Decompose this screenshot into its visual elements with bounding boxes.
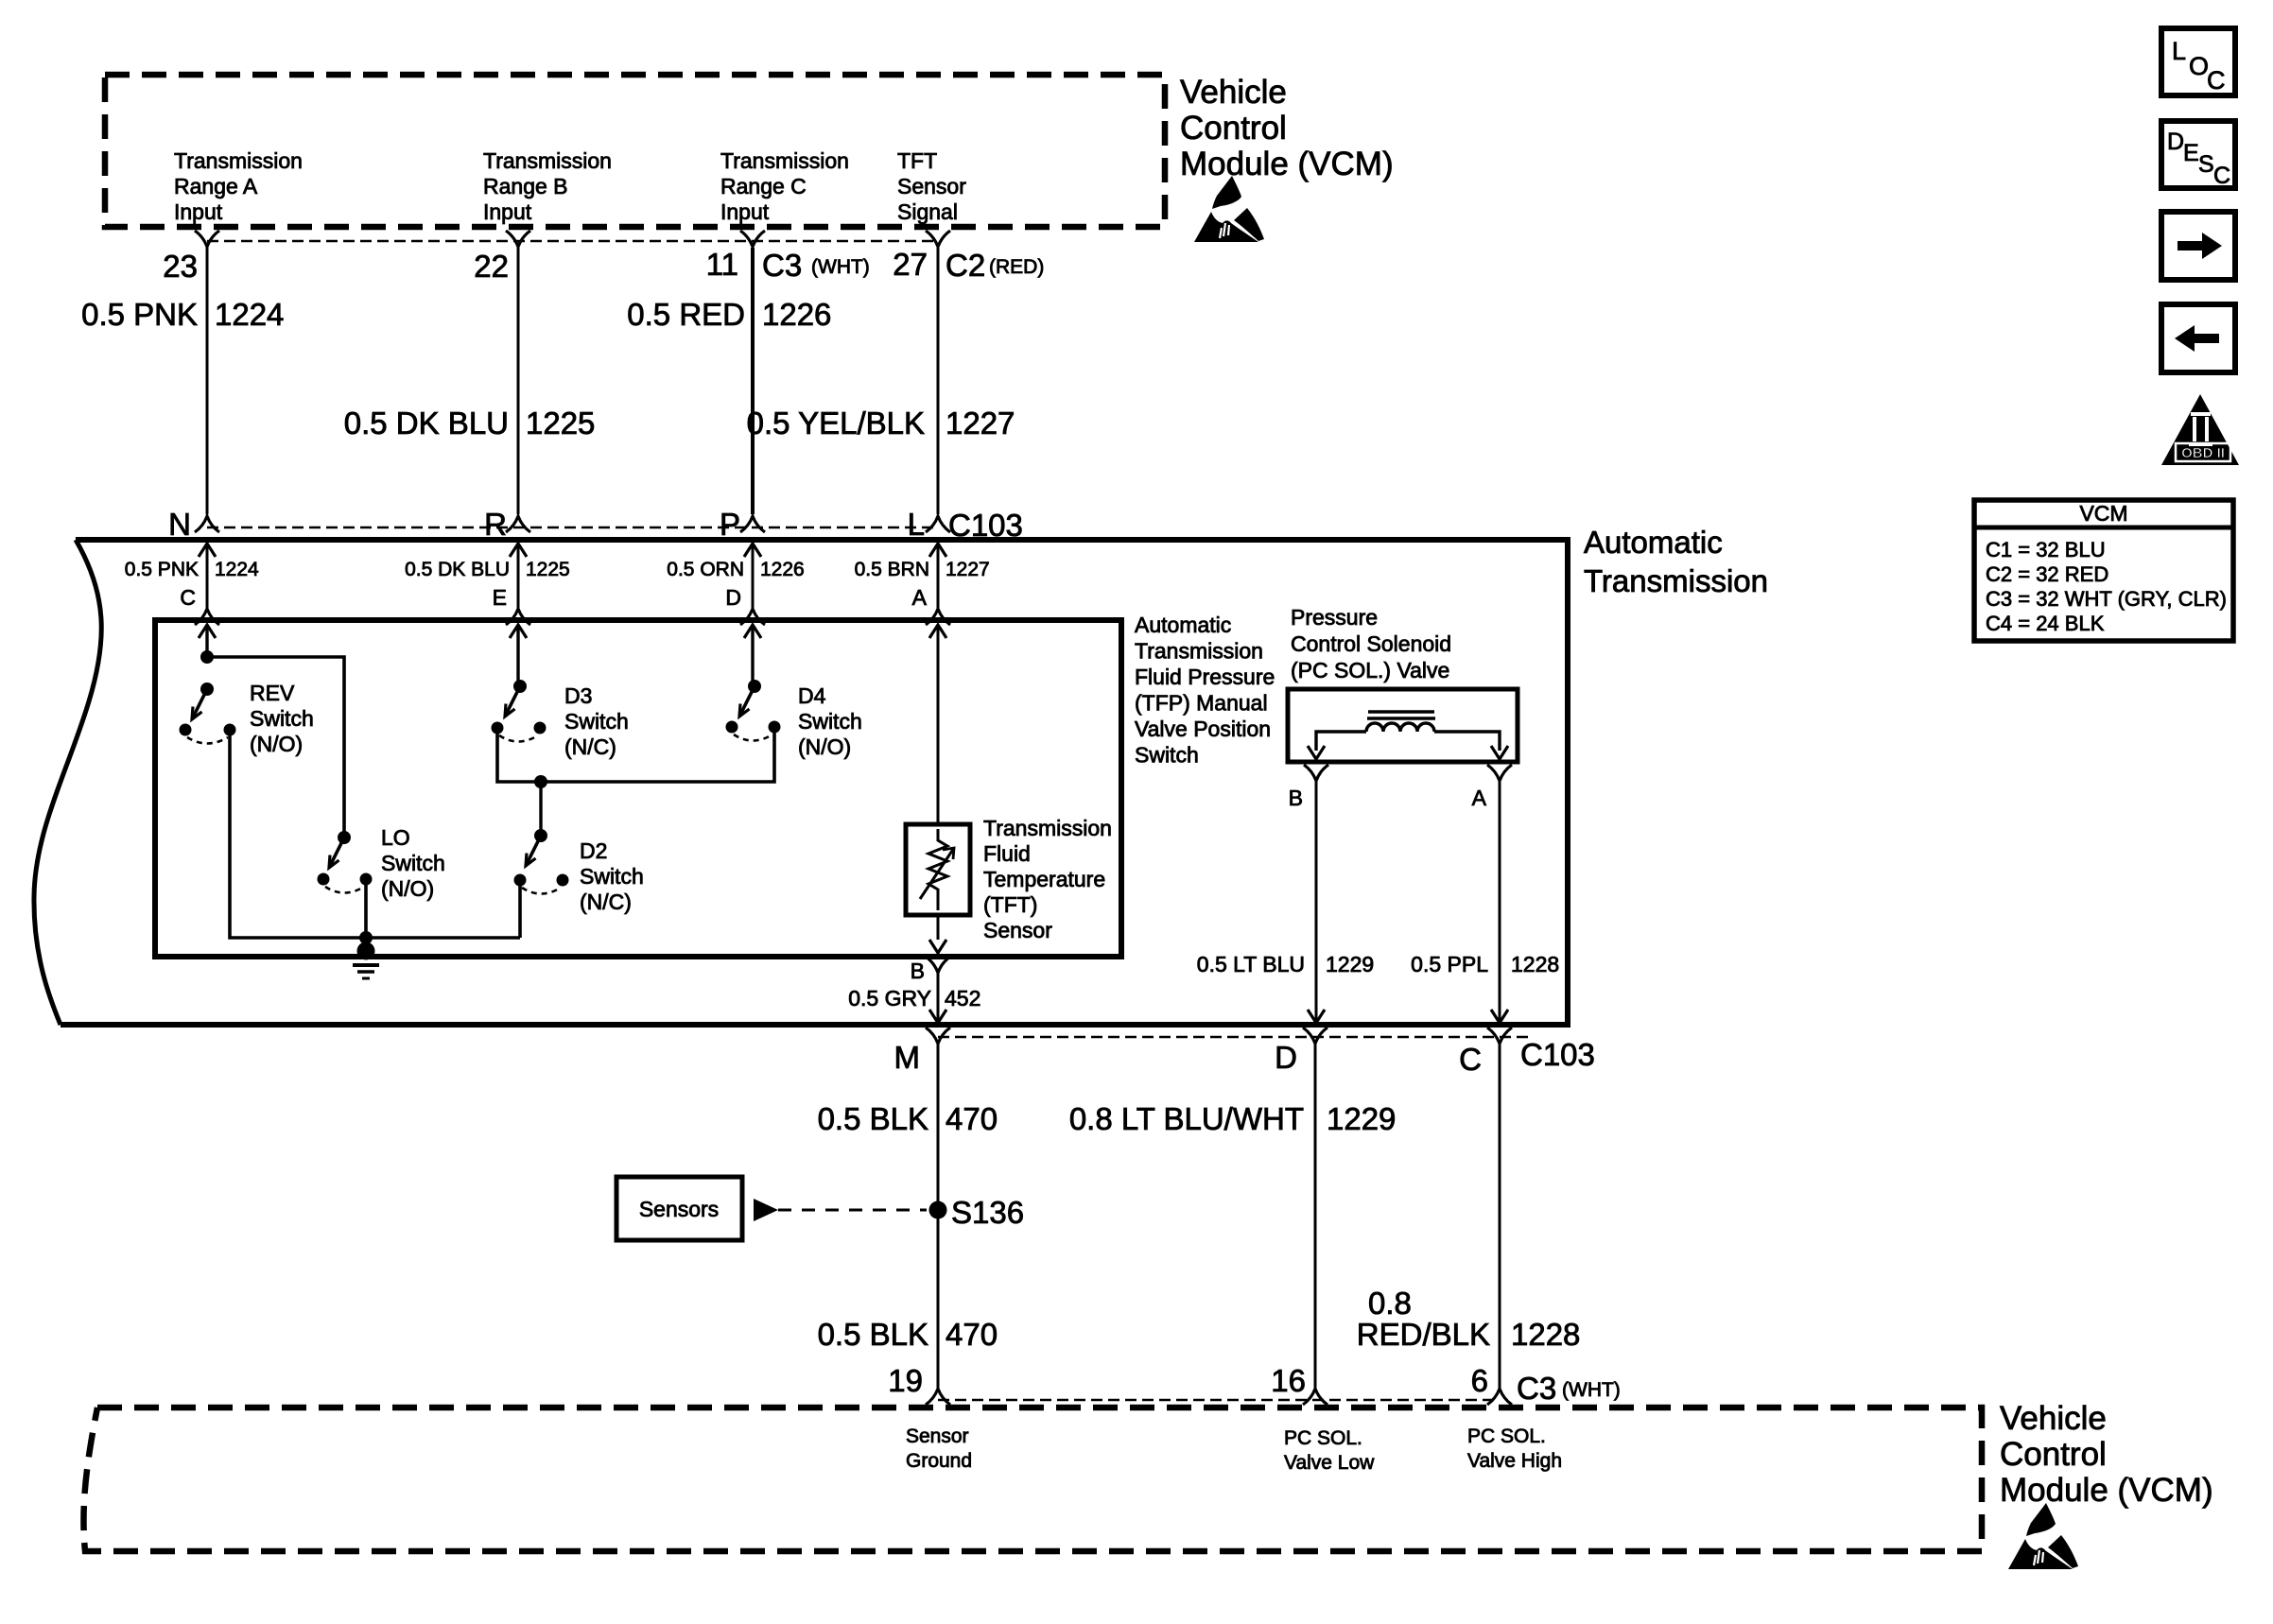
svg-text:0.5 BRN: 0.5 BRN [855,559,929,580]
D4 switch fixed contact [769,721,781,734]
svg-text:0.5 RED: 0.5 RED [627,297,745,332]
fork VCM pin 6 [1487,1389,1512,1405]
arrow terminal D inside box [744,625,761,638]
D4 switch pivot node [748,680,761,693]
icon arrow left [2161,304,2235,372]
svg-text:VCM: VCM [2079,501,2127,526]
wire 470 BLK upper segment [937,1044,940,1388]
junction node on wire C [200,650,214,664]
svg-text:E: E [493,585,507,610]
svg-text:B: B [1289,786,1303,810]
svg-text:C103: C103 [1520,1037,1595,1072]
fork terminal A of solenoid [1487,765,1512,781]
svg-text:16: 16 [1271,1363,1306,1398]
wire 1229 LT BLU (solenoid B down) [1315,781,1318,1008]
fork C103 pin L [926,516,950,532]
wire arrow into transmission at R [510,544,527,557]
svg-text:19: 19 [888,1363,923,1398]
svg-text:E: E [2183,140,2199,166]
fork C103 pin D [1303,1028,1327,1044]
wire junction down to D2 pivot [539,782,542,836]
arrow terminal E inside box [510,625,527,638]
svg-text:1225: 1225 [526,406,595,441]
wire arrow into transmission at P [744,544,761,557]
svg-text:C2 = 32 RED: C2 = 32 RED [1986,562,2108,586]
ground node dot on box edge [357,942,375,960]
connector fork pin 22 [506,231,530,247]
svg-text:A: A [1472,786,1487,810]
svg-text:0.5 PNK: 0.5 PNK [125,559,199,580]
LO switch pivot node [338,831,351,844]
REV switch throw arc [187,737,228,744]
VCM bottom module dashed box [83,1408,1982,1551]
VCM connector table [1974,500,2233,641]
svg-text:470: 470 [946,1101,998,1136]
solenoid coil L1 [1366,723,1434,732]
svg-text:0.5 BLK: 0.5 BLK [818,1101,928,1136]
svg-text:1224: 1224 [215,297,284,332]
TFT thermistor zigzag [928,829,947,910]
wire 1229 LT BLU/WHT lower [1314,1044,1317,1388]
svg-text:452: 452 [945,986,980,1011]
fork C103 pin C [1487,1028,1512,1044]
fork C103 pin M [926,1028,950,1044]
svg-text:C3: C3 [762,248,802,283]
Sensors reference box [616,1177,742,1240]
ESD sensitive device icon bottom [2008,1503,2078,1569]
arrow terminal A inside box [929,625,946,638]
svg-text:1229: 1229 [1327,1101,1396,1136]
fork VCM pin 16 [1303,1389,1327,1405]
svg-text:11: 11 [706,247,738,282]
D2 switch pivot node [534,829,547,842]
svg-text:Sensors: Sensors [639,1197,719,1221]
svg-text:C2: C2 [946,248,985,283]
arrow at box edge terminal B [929,940,946,953]
svg-text:S136: S136 [951,1195,1024,1230]
svg-text:0.5 GRY: 0.5 GRY [848,986,931,1011]
svg-text:R: R [484,507,507,542]
fork C103 pin N [195,516,219,532]
D3 switch fixed contact [534,722,547,734]
svg-text:1225: 1225 [526,559,570,580]
D4 switch blade [739,686,755,717]
connector C103 lower row (thin dashed) [938,1036,1532,1039]
wire TFT to terminal B [937,915,940,940]
arrow terminal C inside box [199,625,216,638]
splice node S136 [929,1201,947,1219]
svg-text:6: 6 [1471,1363,1488,1398]
wire 1226 RED (VCM 11 to C103 P) [751,248,755,514]
svg-text:C: C [1459,1042,1482,1077]
D2 switch moving contact [514,874,527,887]
wire from REV contact to ground bus [230,730,520,938]
TFT thermistor arrow [920,848,954,899]
svg-text:0.5 LT BLU: 0.5 LT BLU [1197,952,1305,976]
junction node ground bus [359,931,373,944]
svg-text:N: N [168,507,191,542]
LO switch fixed contact [360,873,373,886]
svg-text:O: O [2189,52,2209,80]
wire 1228 RED/BLK lower [1499,1044,1501,1388]
PC solenoid valve box [1288,689,1518,762]
svg-text:D: D [2167,129,2184,155]
REV switch moving contact [180,724,192,736]
REV switch pivot node [200,682,214,696]
svg-text:(WHT): (WHT) [1562,1379,1621,1401]
svg-text:P: P [720,507,740,542]
svg-text:C3: C3 [1517,1371,1556,1406]
Automatic Transmission box outline [76,537,1568,543]
fork terminal B [926,957,950,973]
svg-text:L: L [908,507,925,542]
solenoid core bars [1368,710,1434,714]
svg-text:0.8 LT BLU/WHT: 0.8 LT BLU/WHT [1069,1101,1304,1136]
LO switch blade [329,838,344,868]
connector fork pin 11 [740,231,765,247]
svg-text:OBD II: OBD II [2181,445,2225,461]
wire 1227 YEL/BLK (VCM 27 to C103 L) [937,248,940,514]
terminal fork E [506,609,530,625]
svg-text:1226: 1226 [762,297,831,332]
solenoid lead A [1434,732,1500,751]
terminal fork C [195,609,219,625]
svg-text:27: 27 [893,247,928,282]
svg-text:C: C [2213,163,2230,189]
svg-text:C3 = 32 WHT (GRY, CLR): C3 = 32 WHT (GRY, CLR) [1986,587,2227,611]
D3 switch blade [505,686,520,717]
D3 switch pivot node [513,680,527,693]
wire 1228 PPL (solenoid A down) [1499,781,1501,1008]
connector fork pin 27 [926,231,950,247]
svg-text:0.5 ORN: 0.5 ORN [667,559,744,580]
svg-text:1224: 1224 [215,559,259,580]
wire D2 contact down to ground bus [518,880,522,938]
terminal fork D [740,609,765,625]
D3 switch throw arc [499,735,538,742]
fork C103 pin R [506,516,530,532]
D2 switch throw arc [522,888,561,894]
TFP manual valve position switch box [155,620,1121,957]
svg-text:0.5 DK BLU: 0.5 DK BLU [405,559,510,580]
svg-text:D: D [1275,1040,1297,1075]
icon LOC [2161,28,2235,95]
svg-text:D: D [725,585,741,610]
svg-text:(RED): (RED) [989,256,1044,278]
svg-text:1228: 1228 [1511,952,1559,976]
svg-text:470: 470 [946,1317,998,1352]
fork C103 pin P [740,516,765,532]
svg-text:1229: 1229 [1326,952,1374,976]
LO switch throw arc [325,887,364,893]
svg-text:1227: 1227 [946,406,1015,441]
wire D3 contact to D4 contact [497,727,774,782]
svg-text:B: B [911,959,925,983]
D3 switch moving contact [492,722,504,734]
dashed wire to splice [778,1209,927,1212]
wire 1225 DK BLU (VCM 22 to C103 R) [517,248,520,514]
icon arrow right [2161,212,2235,280]
svg-text:L: L [2172,37,2186,65]
svg-text:A: A [912,585,928,610]
svg-text:C4 = 24 BLK: C4 = 24 BLK [1986,612,2105,635]
wire from node to LO switch branch [207,657,344,838]
connector C103 upper row (thin dashed) [207,527,938,529]
D2 switch fixed contact [557,874,569,887]
bottom VCM connector row (thin dashed) [938,1399,1500,1402]
icon OBD II triangle [2161,394,2239,465]
svg-text:1227: 1227 [946,559,990,580]
ESD sensitive device icon top [1194,176,1264,242]
REV switch blade [192,689,207,719]
VCM top module dashed box [105,75,1165,227]
wire 1224 PNK (VCM 23 to C103 N) [206,248,209,514]
svg-text:23: 23 [163,249,198,284]
LO switch moving contact [318,873,330,886]
svg-text:0.5 DK BLU: 0.5 DK BLU [344,406,509,441]
svg-text:0.5 BLK: 0.5 BLK [818,1317,928,1352]
svg-text:22: 22 [474,249,509,284]
svg-text:(WHT): (WHT) [811,256,870,278]
D4 switch moving contact [726,721,738,734]
TFT sensor box [906,824,970,915]
torn-edge curve left side of Automatic Transmission box [34,540,101,1025]
svg-text:1226: 1226 [760,559,805,580]
arrow at transmission box bottom (sensor ground wire) [929,1010,946,1023]
wire 452 GRY [937,973,940,1008]
svg-text:C: C [2207,66,2226,95]
connector line C1/C2/C3 at VCM (thin dashed) [207,240,938,243]
D2 switch blade [526,836,541,866]
wire arrow into transmission at N [199,544,216,557]
svg-text:0.5 PPL: 0.5 PPL [1411,952,1488,976]
ground symbol [353,963,379,967]
svg-text:M: M [894,1040,921,1075]
fork terminal B of solenoid [1304,765,1328,781]
svg-text:RED/BLK: RED/BLK [1357,1317,1490,1352]
wire LO contact down to ground [364,879,368,953]
solenoid lead B [1316,732,1366,751]
D4 switch throw arc [734,734,772,741]
svg-text:0.5 PNK: 0.5 PNK [81,297,198,332]
junction node D2 feed [534,775,547,788]
svg-text:C1 = 32 BLU: C1 = 32 BLU [1986,538,2106,561]
REV switch fixed contact [224,724,236,736]
terminal fork A [926,609,950,625]
connector fork pin 23 [195,231,219,247]
svg-text:0.8: 0.8 [1368,1286,1412,1321]
svg-text:0.5 YEL/BLK: 0.5 YEL/BLK [747,406,925,441]
fork VCM pin 19 [926,1389,950,1405]
svg-text:S: S [2198,151,2214,178]
svg-text:1228: 1228 [1511,1317,1580,1352]
wire arrow into transmission at L [929,544,946,557]
icon DESC [2161,121,2235,189]
svg-text:C: C [180,585,196,610]
sensors pointer arrow [754,1199,778,1221]
